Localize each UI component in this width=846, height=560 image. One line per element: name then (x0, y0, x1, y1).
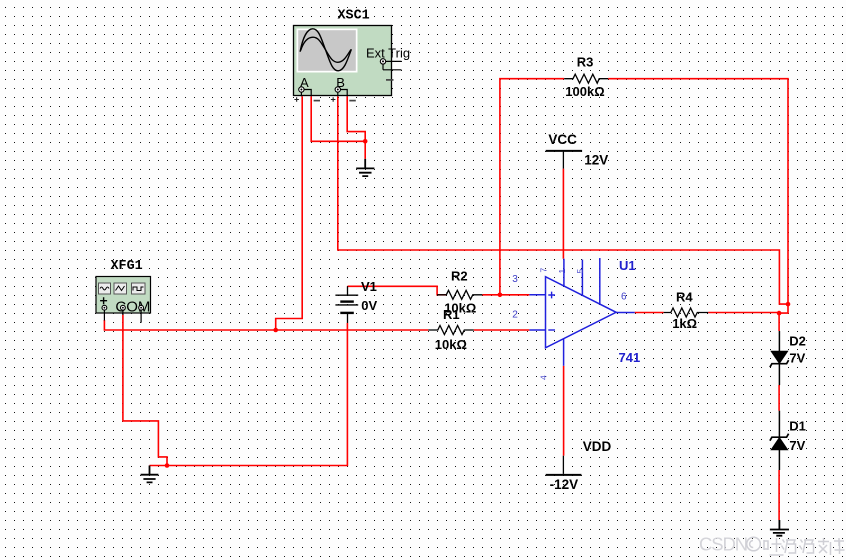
label -12V (550, 477, 579, 492)
label COM (115, 298, 150, 315)
VDD power symbol (546, 456, 582, 475)
svg-text:6: 6 (621, 291, 627, 302)
wire R1 to op-amp - input (474, 329, 530, 331)
svg-text:2: 2 (512, 310, 518, 321)
ground under scope (356, 159, 374, 176)
wire feedback R3 loop (500, 79, 788, 313)
label D1 (789, 419, 806, 434)
label R3 (577, 55, 594, 70)
pin 2 (512, 310, 518, 321)
label VCC (548, 132, 577, 147)
pin 7 (539, 268, 549, 273)
label Ext Trig (366, 45, 410, 60)
svg-text:D1: D1 (789, 419, 806, 434)
wire op-amp pin4 to VDD (563, 366, 565, 456)
pin 6 (621, 291, 627, 302)
junction B+ / feedback right (786, 302, 791, 307)
wire R4 to output node and diode chain (708, 313, 779, 521)
svg-text:Ext Trig: Ext Trig (366, 45, 410, 60)
svg-text:5: 5 (575, 269, 585, 274)
terminal XFG COM (121, 305, 126, 315)
terminal Ext Trig (380, 59, 401, 80)
pin 4 (539, 375, 549, 380)
svg-text:12V: 12V (584, 152, 608, 167)
junction output / diode chain (777, 311, 782, 316)
label R2 (451, 268, 468, 283)
label 100kΩ (565, 84, 604, 99)
wire ground bus bottom-left (150, 323, 348, 466)
ground bottom-right (770, 520, 789, 536)
svg-text:4: 4 (539, 375, 549, 380)
function generator XFG1 (96, 277, 151, 314)
label 7V D2 (789, 351, 805, 366)
resistor R2 (437, 290, 482, 299)
label 1kΩ (672, 316, 697, 331)
svg-text:100kΩ: 100kΩ (565, 84, 604, 99)
wire B+ from scope B to output node (338, 96, 788, 304)
svg-text:R3: R3 (577, 55, 594, 70)
svg-text:XSC1: XSC1 (338, 9, 370, 24)
wire V1 top to R2 (348, 286, 447, 295)
terminal XFG + (102, 305, 107, 320)
label 12V (584, 152, 608, 167)
junction scope grounds (363, 139, 368, 144)
svg-text:D2: D2 (789, 334, 806, 349)
wire R2 to op-amp + input (482, 294, 529, 296)
wire B- to ground junction (347, 96, 365, 159)
label V1 (361, 279, 377, 294)
label VDD (583, 439, 612, 454)
diode D2 (770, 331, 789, 385)
label D2 (789, 334, 806, 349)
label + of XFG1 (100, 297, 107, 304)
svg-text:XFG1: XFG1 (111, 259, 143, 274)
svg-text:-12V: -12V (550, 477, 579, 492)
svg-text:741: 741 (619, 350, 641, 365)
svg-text:1kΩ: 1kΩ (672, 316, 697, 331)
svg-text:VCC: VCC (548, 132, 577, 147)
svg-text:CSDN: CSDN (699, 534, 747, 555)
op-amp U1 (529, 258, 634, 366)
resistor R4 (664, 308, 709, 317)
wire XFG+ input bus to R1 (104, 320, 428, 330)
label R4 (676, 289, 693, 304)
label 741 (619, 350, 641, 365)
label 0V (361, 298, 377, 313)
svg-text:7V: 7V (789, 351, 805, 366)
battery V1 (335, 286, 358, 323)
svg-text:U1: U1 (619, 258, 636, 273)
wire A- to ground junction (311, 96, 365, 141)
pin 5 (575, 269, 585, 274)
resistor R1 (428, 326, 473, 335)
svg-text:R4: R4 (676, 289, 693, 304)
junction input bus / scope A (273, 328, 278, 333)
label 10kΩ R2 (444, 300, 476, 315)
svg-text:VDD: VDD (583, 439, 612, 454)
oscilloscope XSC1 (294, 26, 392, 96)
ground bottom-left (141, 466, 159, 483)
label R1 (443, 307, 460, 322)
svg-text:0V: 0V (361, 298, 377, 313)
diode D1 (770, 411, 789, 470)
junction R2 / feedback at op-amp + (498, 293, 503, 298)
svg-text:7V: 7V (789, 438, 805, 453)
wire XFG COM to ground (123, 315, 167, 466)
svg-text:V1: V1 (361, 279, 377, 294)
wire A+ from scope A to input bus (276, 96, 303, 330)
terminal XFG - (139, 305, 144, 322)
svg-text:R1: R1 (443, 307, 460, 322)
label U1 (619, 258, 636, 273)
label XFG1 (111, 259, 143, 274)
wire VCC to op-amp pin7 (562, 169, 564, 259)
pin 1 (557, 269, 567, 274)
resistor R3 (564, 74, 608, 83)
terminal B (331, 75, 356, 102)
svg-text:10kΩ: 10kΩ (435, 337, 467, 352)
terminal A (294, 75, 320, 102)
svg-text:3: 3 (512, 274, 518, 285)
wire op-amp output to R4 (635, 312, 664, 314)
svg-text:1: 1 (557, 269, 567, 274)
svg-text:R2: R2 (451, 268, 468, 283)
label XSC1 (338, 9, 370, 24)
label 7V D1 (789, 438, 805, 453)
VCC power symbol (546, 151, 582, 169)
junction COM / ground bus (165, 463, 170, 468)
svg-text:7: 7 (539, 268, 549, 273)
watermark (699, 534, 845, 556)
pin 3 (512, 274, 518, 285)
label 10kΩ R1 (435, 337, 467, 352)
